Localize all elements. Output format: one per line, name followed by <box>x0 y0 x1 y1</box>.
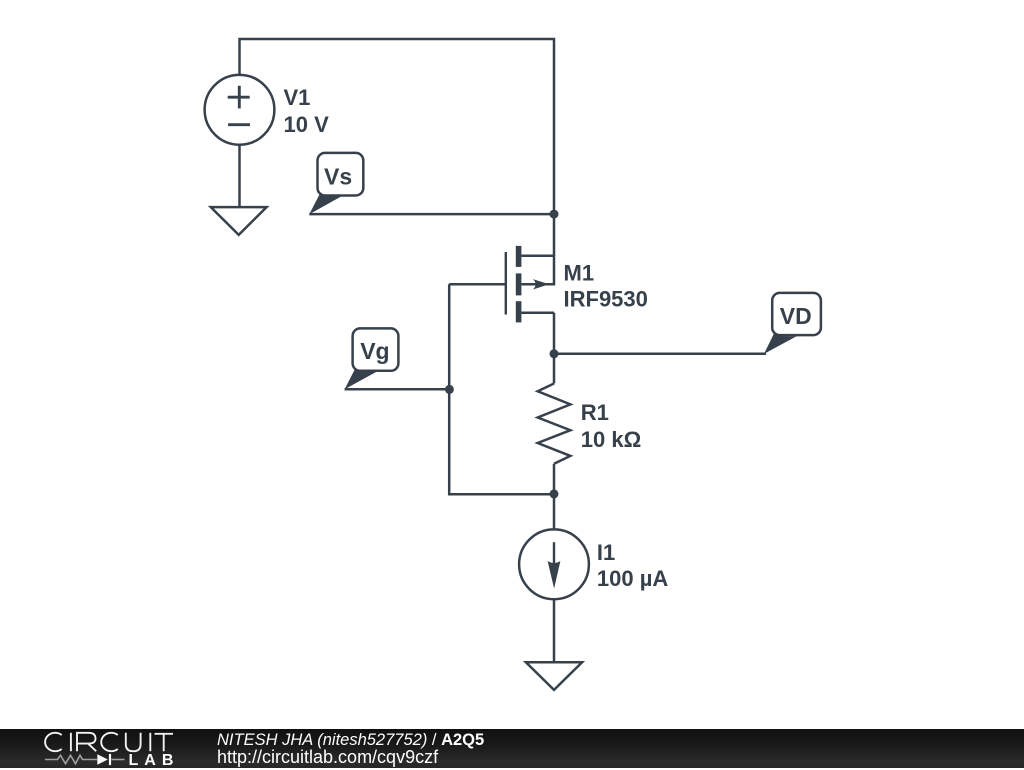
footer bar <box>0 729 1024 768</box>
wire VD node to flag tip <box>554 353 766 356</box>
svg-text:10 kΩ: 10 kΩ <box>581 427 641 452</box>
junction node Vs <box>550 210 559 219</box>
wire Vs tip to node <box>309 213 554 216</box>
net flag Vg <box>345 328 399 389</box>
wire gate <box>449 283 506 286</box>
svg-text:I1: I1 <box>597 540 615 565</box>
resistor R1 <box>538 354 571 494</box>
wire I1 bottom to ground <box>553 599 556 662</box>
net flag VD <box>764 293 821 354</box>
svg-text:10 V: 10 V <box>284 112 330 137</box>
svg-text:R1: R1 <box>581 400 609 425</box>
svg-text:VD: VD <box>780 303 812 329</box>
ground (under V1) <box>211 207 267 235</box>
attribution line 2 url <box>217 747 438 768</box>
junction node bottom <box>550 489 559 498</box>
wire gate down to bottom node <box>449 284 554 494</box>
value label V1 10 V <box>284 85 330 137</box>
value label M1 IRF9530 <box>564 261 648 312</box>
CircuitLab logo resistor-diode line <box>45 755 125 763</box>
svg-text:M1: M1 <box>564 261 595 286</box>
svg-text:100 µA: 100 µA <box>597 566 668 591</box>
current source I1 <box>519 529 589 599</box>
wire bottom node to I1 <box>553 494 556 530</box>
wire Vg tip to node <box>345 388 450 391</box>
svg-text:Vg: Vg <box>360 338 389 364</box>
svg-text:Vs: Vs <box>324 164 352 190</box>
attribution line 1 <box>217 731 484 750</box>
net flag Vs <box>309 153 363 214</box>
wire V1 bottom to ground <box>238 145 241 207</box>
voltage source V1 <box>205 75 275 145</box>
value label R1 10 kOhm <box>581 400 641 452</box>
junction node VD <box>550 349 559 358</box>
svg-text:V1: V1 <box>284 85 311 110</box>
transistor M1 (PMOS IRF9530) <box>506 246 554 354</box>
junction node Vg <box>445 385 454 394</box>
CircuitLab logo CIRCUIT (drawn letters) <box>0 729 200 768</box>
ground (bottom) <box>526 662 582 690</box>
value label I1 100 uA <box>597 540 668 591</box>
svg-text:IRF9530: IRF9530 <box>564 286 648 311</box>
wire top run: V1 top to M1 source <box>240 39 555 256</box>
